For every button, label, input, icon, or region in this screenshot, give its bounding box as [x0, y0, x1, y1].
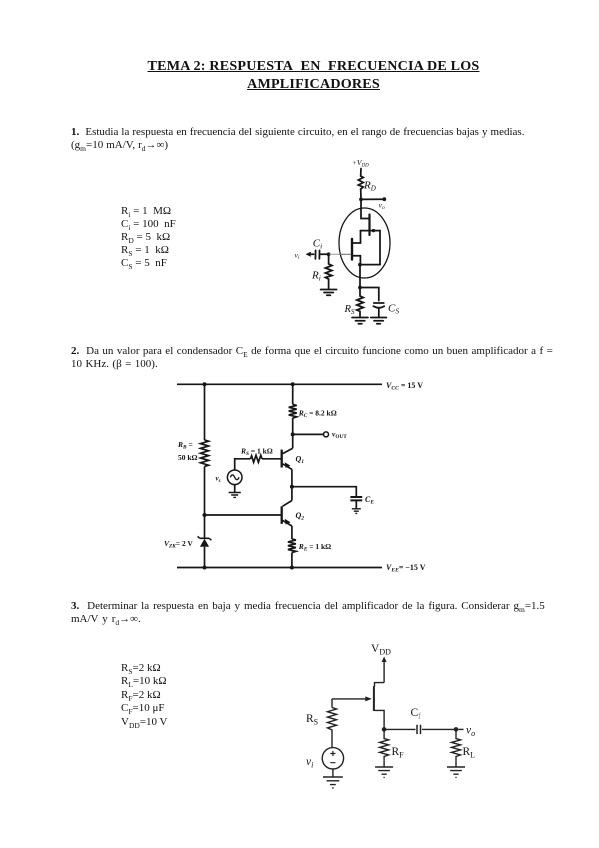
svg-text:Q2: Q2: [296, 511, 305, 522]
problem 3 values: [121, 662, 167, 729]
node +VDD label: [352, 158, 369, 168]
transistor U1 channel: [360, 231, 362, 243]
resistor RL: [452, 729, 461, 761]
source vs: [227, 470, 242, 485]
resistor Ri: [325, 254, 332, 288]
svg-text:RF: RF: [392, 746, 405, 759]
ground below Ri: [321, 290, 337, 296]
svg-text:RS: RS: [344, 304, 355, 316]
resistor RC: [289, 404, 297, 418]
transistor J1 drain lead: [375, 683, 385, 687]
wire vout: [293, 433, 324, 435]
transistor J1 source lead: [375, 710, 385, 729]
svg-text:VZK= 2 V: VZK= 2 V: [164, 539, 193, 550]
wire RB to base node: [204, 466, 206, 515]
node VDD label: [371, 643, 391, 656]
node source junction: [382, 727, 387, 732]
title: [0, 57, 599, 93]
ground below RF: [383, 761, 385, 767]
wire gate: [339, 253, 351, 255]
svg-text:RD: RD: [363, 180, 376, 193]
transistor U1 gate bar: [351, 239, 353, 260]
node source junction: [358, 263, 362, 267]
svg-text:50 kΩ: 50 kΩ: [178, 453, 198, 462]
ground below RS: [352, 318, 368, 324]
wire source down: [359, 265, 361, 288]
wire to CE: [292, 487, 356, 497]
problem 2 text: [71, 345, 599, 371]
node drain junction: [359, 198, 363, 202]
ground below vs: [234, 485, 236, 493]
svg-text:VDD: VDD: [371, 643, 391, 656]
wire to CS: [360, 288, 379, 301]
resistor RE: [288, 539, 296, 553]
problem 1 text: [71, 126, 591, 152]
wire to Q1 collector: [292, 434, 294, 448]
node vo: [454, 727, 459, 732]
svg-text:RC = 8.2 kΩ: RC = 8.2 kΩ: [298, 409, 337, 420]
wire junction to cap: [384, 728, 415, 730]
node emitter Q1 junction: [290, 485, 294, 489]
svg-text:vOUT: vOUT: [332, 430, 347, 440]
transistor U1 bulk line: [361, 230, 381, 232]
transistor envelope ellipse: [339, 208, 390, 278]
resistor RS: [328, 708, 337, 748]
transistor J1 channel: [373, 686, 375, 711]
node vo label: [379, 201, 385, 211]
zener D1: [198, 536, 212, 540]
resistor RS2: [251, 455, 263, 462]
svg-text:VCC = 15 V: VCC = 15 V: [386, 381, 423, 392]
wire RS2 to source vs: [235, 459, 251, 470]
transistor U1 drain lead: [361, 199, 370, 218]
wire left vertical: [204, 384, 206, 440]
svg-text:CE: CE: [365, 495, 374, 506]
svg-text:Ci: Ci: [313, 238, 322, 251]
wire gate corner to RS: [331, 699, 333, 708]
resistor RB: [201, 440, 209, 466]
wire Ci to node: [320, 253, 329, 255]
wire base Q2: [205, 514, 282, 516]
wire vi arrow: [308, 253, 314, 255]
svg-text:CS: CS: [388, 303, 399, 316]
svg-text:Q1: Q1: [296, 455, 305, 466]
capacitor CS: [374, 302, 384, 304]
wire VDD arrow: [383, 660, 385, 683]
circuit 1 (hand drawn): [285, 150, 415, 335]
resistor RD: [358, 176, 363, 189]
wire node to gate (faint): [329, 253, 339, 255]
wire cap to out: [422, 728, 456, 730]
resistor RF: [380, 729, 389, 761]
capacitor CF: [417, 725, 421, 734]
svg-text:+VDD: +VDD: [352, 158, 369, 168]
capacitor Ci: [314, 250, 316, 258]
svg-text:RB =: RB =: [177, 440, 193, 451]
wire VCC to RC: [292, 384, 294, 404]
wire RE to rail: [291, 553, 293, 568]
svg-text:vs: vs: [216, 475, 221, 484]
rail VEE: [177, 567, 382, 569]
node vout terminal: [324, 432, 329, 437]
rail VCC: [177, 383, 382, 385]
wire node to zener: [204, 515, 206, 538]
capacitor CE: [350, 497, 362, 500]
source vi: [322, 748, 343, 769]
circuit 3: [295, 638, 495, 798]
wire VDD to RD: [360, 169, 362, 177]
svg-text:RE = 1 kΩ: RE = 1 kΩ: [298, 542, 331, 553]
ground below RL: [455, 761, 457, 767]
svg-text:RL: RL: [463, 746, 476, 759]
problem 3 text: [71, 600, 599, 626]
ground below CS: [371, 318, 387, 324]
svg-text:RS = 1 kΩ: RS = 1 kΩ: [240, 447, 273, 458]
svg-text:vo: vo: [379, 201, 385, 211]
wire node to vo terminal: [361, 198, 384, 200]
svg-text:VEE= −15 V: VEE= −15 V: [386, 563, 426, 574]
node vi label: [295, 251, 300, 261]
ground below vi: [332, 769, 334, 777]
wire RC to collector node: [292, 418, 294, 434]
svg-text:vo: vo: [466, 725, 475, 738]
circuit 2: [150, 373, 450, 578]
transistor Q2: [291, 487, 293, 501]
svg-text:vi: vi: [306, 756, 313, 769]
resistor RS: [357, 288, 364, 317]
wire RD to node: [360, 189, 362, 199]
svg-text:vi: vi: [295, 251, 300, 261]
problem 1 values: [121, 205, 176, 270]
svg-text:Cf: Cf: [411, 707, 422, 720]
svg-text:Ri: Ri: [311, 270, 321, 283]
svg-text:RS: RS: [306, 713, 318, 726]
wire base Q1: [262, 458, 282, 460]
transistor Q1: [283, 448, 293, 454]
transistor J1 gate arrow: [332, 698, 369, 700]
